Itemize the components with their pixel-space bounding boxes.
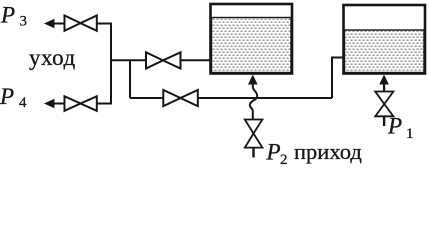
svg-text:уход: уход (29, 45, 76, 70)
svg-text:4: 4 (19, 95, 27, 111)
svg-text:1: 1 (406, 126, 414, 142)
svg-text:3: 3 (20, 14, 28, 30)
svg-text:P: P (0, 84, 14, 109)
svg-text:2: 2 (280, 152, 288, 168)
svg-text:приход: приход (294, 139, 362, 164)
svg-text:P: P (387, 114, 402, 139)
svg-text:P: P (0, 3, 15, 28)
svg-text:P: P (266, 140, 281, 165)
